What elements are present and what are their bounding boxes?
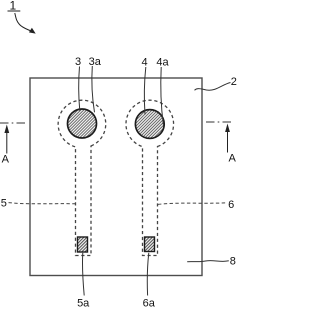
leader 2 (wavy) <box>195 83 231 91</box>
svg-text:4a: 4a <box>156 57 169 69</box>
leader 5a <box>83 253 85 296</box>
svg-text:A: A <box>2 154 10 166</box>
svg-text:6a: 6a <box>143 298 156 310</box>
svg-text:4: 4 <box>141 57 147 69</box>
svg-text:5a: 5a <box>77 298 90 310</box>
label 1 (figure number, underlined) <box>8 0 21 13</box>
substrate body 2 (main rectangle) <box>30 78 202 276</box>
svg-text:2: 2 <box>231 76 237 88</box>
section arrow A (left) <box>4 125 9 154</box>
leader 3 <box>79 67 80 111</box>
leader 5 (dashed) <box>9 203 76 204</box>
section line A-A (right dash-dot) <box>206 121 233 123</box>
svg-text:5: 5 <box>1 198 7 210</box>
electrode 4 (right hatched circle) <box>135 110 164 139</box>
svg-text:6: 6 <box>228 199 234 211</box>
terminal 5a (left hatched pad) <box>78 237 88 252</box>
svg-text:3: 3 <box>75 56 81 68</box>
land 4a (right dashed keyhole outline) <box>126 100 174 255</box>
svg-text:A: A <box>229 153 237 165</box>
land 3a (left dashed keyhole outline) <box>58 100 106 255</box>
terminal 6a (right hatched pad) <box>145 237 155 252</box>
leader 4a <box>161 67 163 125</box>
section line A-A (left dash-dot) <box>0 122 27 124</box>
leader arrow from label 1 <box>15 13 36 34</box>
electrode 3 (left hatched circle) <box>68 109 97 138</box>
leader 6 (dashed) <box>158 203 227 205</box>
svg-text:8: 8 <box>230 256 236 268</box>
leader 6a <box>147 253 148 296</box>
leader 8 (wavy) <box>187 261 229 262</box>
leader 4 <box>144 67 145 115</box>
svg-text:3a: 3a <box>89 56 102 68</box>
section arrow A (right) <box>225 124 230 153</box>
leader 3a <box>92 66 95 112</box>
